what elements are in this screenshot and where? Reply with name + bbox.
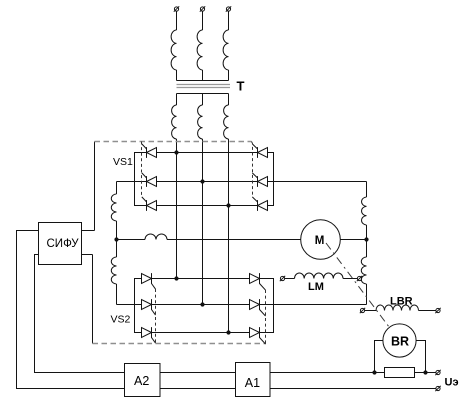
junction VS1 phase b / row 2 (200, 179, 204, 183)
thyristor VS2.6 (250, 327, 266, 344)
terminal Uэ (435, 386, 440, 391)
wire secondary phase b drop (202, 139, 204, 305)
svg-text:LM: LM (308, 281, 324, 293)
transformer T secondary winding W6 (224, 105, 229, 139)
field winding LM (295, 273, 344, 279)
reactor L2 upper winding (362, 197, 367, 225)
transformer T primary winding W1 (171, 30, 176, 70)
wire СИФУ lower gate feeder (92, 255, 94, 344)
svg-text:T: T (237, 79, 245, 94)
gate bus to VS2 (dashed) (93, 343, 267, 345)
junction resistor right / BR (423, 370, 427, 374)
reactor L1 lower winding (111, 257, 116, 284)
thyristor VS1.1 (142, 144, 157, 158)
wire СИФУ right upper stub (82, 230, 95, 232)
gate wire VS1 left column (dashed) (141, 142, 143, 196)
svg-text:M: M (315, 235, 325, 247)
wire LM left lead (285, 278, 295, 280)
thyristor VS1.6 (252, 197, 267, 211)
thyristor VS2.5 (250, 299, 266, 316)
terminal X1 (supply phase A) (174, 6, 179, 11)
wire reactor L1 to VS2 row2 (116, 284, 118, 305)
svg-text:A2: A2 (134, 374, 149, 388)
wire LM right lead (343, 278, 357, 280)
svg-text:VS1: VS1 (113, 156, 133, 168)
terminal LM right (357, 276, 362, 281)
wire СИФУ upper gate feeder (94, 142, 96, 231)
gate wire VS1 right column (dashed) (252, 142, 253, 196)
smoothing choke L3 (145, 234, 167, 240)
thyristor VS1.4 (252, 144, 267, 158)
wire choke to motor M left terminal (167, 239, 301, 241)
wire phase B to primary winding (202, 11, 204, 30)
transformer T secondary winding W4 (172, 105, 177, 139)
junction VS2 phase b / row 2 (200, 302, 204, 306)
thyristor VS2.2 (142, 299, 156, 315)
thyristor VS2.4 (250, 273, 266, 290)
wire secondary bus to winding W5 (202, 94, 204, 106)
thyristor VS1.5 (252, 173, 267, 187)
thyristor VS2.3 (142, 327, 156, 343)
terminal X2 (supply phase B) (200, 6, 205, 11)
thyristor VS1.3 (142, 197, 157, 211)
wire reactor L2 to VS2 row2 (366, 284, 368, 305)
svg-text:VS2: VS2 (111, 314, 131, 326)
junction VS2 phase c / row 3 (226, 330, 230, 334)
svg-text:BR: BR (391, 334, 409, 348)
regulator A1 (236, 363, 271, 397)
tachogenerator BR (383, 324, 416, 357)
wire resistor R to terminal (415, 372, 436, 374)
wire A2 to СИФУ inner loop (35, 255, 125, 373)
gate bus to VS1 (dashed) (95, 141, 252, 143)
junction VS1 phase c / row 3 (226, 203, 230, 207)
terminal LBR right (435, 308, 440, 313)
svg-text:Uэ: Uэ (445, 377, 459, 389)
wire motor M right terminal (340, 239, 366, 241)
rectifier group VS2 frame (135, 279, 274, 333)
wire primary star bus (177, 80, 229, 82)
svg-text:СИФУ: СИФУ (47, 238, 80, 250)
reactor L1 upper winding (111, 194, 116, 221)
wire A1 to A2 upper (160, 372, 236, 374)
wire primary winding W1 to star bus (176, 70, 178, 81)
wire secondary phase a drop (176, 139, 178, 279)
excitation winding LBR (376, 305, 419, 311)
wire BR left lead (375, 341, 383, 373)
terminal X3 (supply phase C) (226, 6, 231, 11)
wire reactor midpoint to smoothing choke (117, 239, 146, 241)
junction motor armature right node (364, 237, 368, 241)
reactor L2 lower winding (361, 257, 366, 284)
wire LBR right lead (419, 310, 436, 312)
wire phase A to primary winding (176, 11, 178, 30)
junction VS2 phase a / row 1 (174, 276, 178, 280)
junction VS1 phase a / row 1 (174, 150, 178, 154)
wire primary winding W3 to star bus (228, 70, 230, 81)
regulator A2 (125, 364, 161, 397)
thyristor VS1.2 (142, 173, 157, 187)
wire setpoint Uэ line (270, 388, 436, 390)
wire VS1 row2 right to reactor L2 top (366, 182, 368, 198)
wire secondary bus to winding W4 (176, 94, 178, 106)
transformer T primary winding W3 (223, 30, 228, 70)
wire A1 to A2 lower (160, 388, 236, 390)
junction reactor L1 midpoint (114, 237, 118, 241)
wire LBR left lead (365, 310, 376, 312)
svg-text:A1: A1 (245, 376, 260, 390)
terminal LM left (280, 276, 285, 281)
wire primary winding W2 to star bus (202, 70, 204, 81)
rectifier group VS1 frame (135, 153, 274, 206)
wire BR right lead (416, 341, 425, 373)
junction resistor left / BR (372, 370, 376, 374)
wire secondary phase c drop (228, 139, 230, 333)
wire VS1 middle row (cathode bus) (117, 181, 367, 183)
wire secondary star bus (177, 93, 229, 95)
wire A1 output to resistor R (270, 372, 385, 374)
wire secondary bus to winding W6 (228, 94, 230, 106)
thyristor VS2.1 (142, 273, 156, 289)
motor M (301, 220, 341, 260)
transformer T primary winding W2 (197, 30, 202, 70)
wire A2 to СИФУ outer loop (17, 231, 125, 389)
wire VS1 row2 to reactor L1 top (116, 182, 118, 195)
terminal LBR left (360, 308, 365, 313)
mechanical shaft coupling M to BR (dash-dot) (326, 243, 389, 327)
wire СИФУ right lower stub (82, 254, 93, 256)
wire phase C to primary winding (228, 11, 230, 30)
wire reactor L1 midpoint (116, 221, 118, 257)
wire VS2 middle row (anode bus) (117, 304, 367, 306)
resistor R (385, 368, 415, 378)
gate wire VS2 right column (dashed) (265, 290, 267, 344)
transformer T secondary winding W5 (198, 105, 203, 139)
svg-text:LBR: LBR (390, 296, 413, 308)
wire reactor L2 midpoint (366, 225, 368, 257)
transformer T core (177, 85, 231, 88)
control unit СИФУ (39, 223, 82, 265)
terminal tacho feedback output (435, 370, 440, 375)
gate wire VS2 left column (dashed) (155, 289, 157, 344)
